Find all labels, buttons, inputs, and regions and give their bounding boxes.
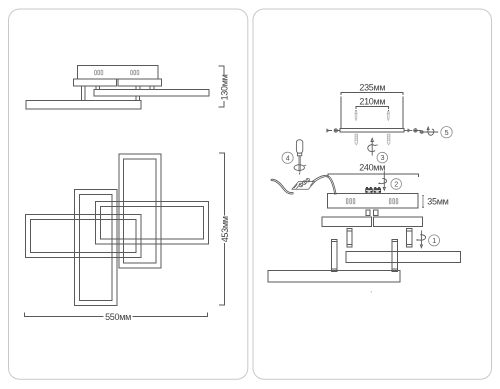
screw-turn icon 5 — [419, 127, 438, 135]
callout circle 5 — [441, 127, 452, 138]
wire left — [271, 179, 294, 194]
mounting ring bar left half (side view) — [74, 79, 117, 86]
callout circle 4 — [282, 152, 293, 163]
svg-text:235мм: 235мм — [359, 82, 385, 92]
dim 35mm bracket — [422, 195, 424, 208]
terminal connector block b above canopy — [374, 187, 381, 193]
dimension 550mm line — [25, 313, 208, 317]
upper arm (exploded) — [346, 251, 461, 262]
short post c (side view) — [150, 86, 154, 90]
short standoff post left — [347, 229, 352, 247]
upper arm (side view) — [94, 90, 209, 97]
dim 240mm line — [328, 174, 418, 177]
wire right — [311, 175, 336, 194]
frame B outer (left vertical) — [74, 190, 117, 306]
gray anchor top right — [387, 112, 390, 121]
long post left — [332, 240, 337, 272]
terminal connector block a above canopy — [365, 187, 372, 193]
svg-text:240мм: 240мм — [359, 163, 385, 173]
svg-text:5: 5 — [445, 128, 449, 137]
canopy vents right (side view) — [131, 70, 139, 75]
terminal strip with screws — [292, 178, 315, 189]
svg-text:35мм: 35мм — [427, 197, 448, 207]
screw pair left of bracket bar — [327, 129, 340, 133]
short standoff post right — [407, 229, 412, 247]
frame A inner — [124, 159, 157, 263]
frame D outer (left horizontal) — [26, 215, 142, 258]
post between arms (side view) — [136, 96, 140, 101]
dimension 453mm line — [219, 153, 224, 305]
svg-text:550мм: 550мм — [105, 312, 131, 322]
callout circle 3 — [377, 152, 388, 163]
canopy vents right group (exploded) — [389, 198, 397, 203]
gray anchor top left — [355, 112, 358, 121]
ring bar right half (exploded) — [373, 217, 422, 227]
canopy vents left (side view) — [95, 70, 103, 75]
dimension 130mm bracket — [219, 66, 224, 107]
screw-turn icon 2 — [378, 171, 387, 190]
dim 210mm line — [356, 106, 388, 109]
leader dashes under 210 — [356, 110, 388, 112]
right panel frame — [253, 9, 492, 379]
svg-text:453мм: 453мм — [220, 216, 230, 242]
long post right — [392, 240, 397, 272]
short post b (side view) — [136, 86, 140, 90]
frame A outer (tall vertical) — [119, 154, 161, 268]
gray anchor below bar right — [387, 134, 390, 145]
lower arm (side view) — [26, 101, 141, 110]
callout circle 1 — [429, 235, 440, 246]
left panel frame — [9, 9, 248, 379]
screwdriver — [294, 140, 307, 176]
tall left post (side view) — [81, 86, 85, 101]
ring bar left half (exploded) — [322, 217, 372, 227]
svg-text:1: 1 — [432, 236, 436, 245]
screw-turn icon 3 (vertical screw with up arrow) — [368, 138, 378, 155]
canopy vents left group (exploded) — [346, 198, 354, 203]
frame B inner — [79, 195, 112, 301]
tiny dot mark — [371, 291, 372, 292]
svg-text:210мм: 210мм — [359, 97, 385, 107]
callout circle 2 — [391, 179, 402, 190]
dim 235mm line with extension lines down to bracket — [341, 93, 403, 129]
mounting ring bar right half (side view) — [118, 79, 161, 86]
svg-text:130мм: 130мм — [220, 74, 230, 100]
canopy box (exploded) — [327, 194, 417, 209]
canopy box (side view) — [78, 66, 158, 79]
screw pair right of bracket bar — [404, 129, 421, 133]
lower arm (exploded) — [268, 270, 400, 282]
svg-text:4: 4 — [286, 153, 290, 162]
svg-text:2: 2 — [394, 180, 398, 189]
clips below canopy — [366, 210, 370, 215]
frame D inner — [31, 220, 137, 253]
gray anchor below bar left — [355, 134, 358, 145]
mounting bracket bar — [340, 128, 404, 132]
screw-turn icon 1 — [416, 230, 426, 247]
frame C outer (right horizontal) — [95, 202, 208, 245]
short post a (side view) — [96, 86, 100, 90]
svg-text:3: 3 — [381, 153, 385, 162]
frame C inner — [100, 207, 203, 240]
